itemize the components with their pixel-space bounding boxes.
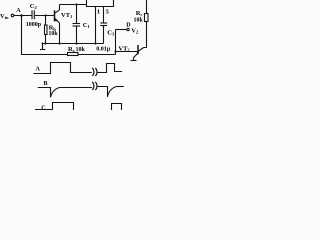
svg-text:Rc: Rc [136,10,143,17]
svg-text:Rs10k: Rs10k [68,46,85,53]
svg-text:C3: C3 [107,30,115,37]
svg-text:C1: C1 [83,22,91,29]
svg-text:VT2: VT2 [118,45,130,52]
svg-text:10k: 10k [48,31,58,37]
svg-text:1000p: 1000p [26,22,42,28]
svg-text:Vin: Vin [0,13,9,20]
svg-text:C2: C2 [30,3,38,10]
svg-text:0.01μ: 0.01μ [96,47,111,53]
svg-text:A: A [36,67,41,73]
svg-text:B: B [44,81,48,87]
svg-text:A: A [16,8,21,14]
svg-text:C: C [41,105,45,110]
svg-text:1: 1 [97,8,100,15]
svg-text:VT1: VT1 [61,12,73,19]
svg-text:V2: V2 [131,27,139,34]
svg-text:10k: 10k [134,18,144,24]
